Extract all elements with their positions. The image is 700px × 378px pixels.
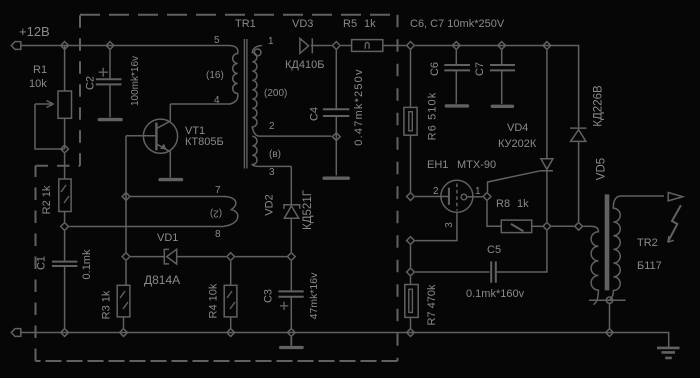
resistor R7 power mark <box>409 289 413 312</box>
svg-text:КУ202К: КУ202К <box>498 138 537 150</box>
transformer TR1 secondary winding upper <box>252 46 262 137</box>
node C3 top junction <box>287 253 295 261</box>
wire R4 node to C3 node <box>235 256 286 258</box>
wire C5 right <box>496 231 547 272</box>
diode VD3 <box>300 38 312 53</box>
chassis bar under C6 <box>446 104 467 107</box>
transformer TR1 secondary start loop <box>254 49 261 56</box>
svg-text:R1: R1 <box>33 64 47 76</box>
wire VD1 to R4 node <box>177 256 226 258</box>
resistor R6 top lead <box>410 50 412 107</box>
chassis bar under C2 <box>99 118 121 121</box>
resistor R4 <box>224 285 237 317</box>
resistor R7 bottom lead <box>410 317 412 328</box>
svg-text:VD4: VD4 <box>507 122 528 134</box>
svg-text:2: 2 <box>269 121 275 132</box>
svg-text:3: 3 <box>444 222 455 228</box>
node pin3 junction <box>407 237 415 245</box>
resistor R6 bottom lead <box>410 135 412 192</box>
capacitor C7 <box>490 65 515 70</box>
svg-text:EH1: EH1 <box>427 159 448 171</box>
svg-text:0.1mk*160v: 0.1mk*160v <box>466 288 525 300</box>
wire node to R5 <box>341 45 352 47</box>
resistor R2 lead <box>64 154 66 179</box>
transformer TR1 bottom winding <box>224 197 238 227</box>
svg-text:(200): (200) <box>264 88 287 99</box>
resistor R6 <box>404 107 417 135</box>
neon lamp EH1 starter electrode dashed <box>456 184 458 211</box>
transistor VT1 emitter arrow <box>160 144 167 150</box>
resistor R1 <box>58 91 72 118</box>
capacitor C3 top lead <box>290 261 292 291</box>
diode VD1 zener <box>164 249 176 264</box>
transistor VT1 emitter <box>158 145 171 178</box>
svg-text:КД521Г: КД521Г <box>302 189 314 230</box>
spark gap arrow <box>668 193 683 201</box>
svg-text:R6 510k: R6 510k <box>427 92 439 141</box>
resistor R2 power marks <box>61 185 69 203</box>
svg-text:(в): (в) <box>269 149 281 160</box>
resistor R3 power marks <box>120 291 128 309</box>
dashed module border notch horizontal <box>36 165 81 167</box>
transformer TR2 secondary winding <box>610 196 664 300</box>
input terminal +12V <box>11 42 20 50</box>
svg-text:3: 3 <box>269 167 275 178</box>
ground <box>657 348 680 358</box>
neon lamp EH1 <box>441 180 473 212</box>
dashed module border right <box>397 15 399 361</box>
svg-text:TR2: TR2 <box>637 237 658 249</box>
svg-text:1k: 1k <box>517 198 529 210</box>
capacitor C3 bottom lead <box>290 297 292 328</box>
spark gap lightning <box>668 205 681 242</box>
resistor R8 <box>501 220 531 233</box>
chassis bar under C4 <box>324 176 348 179</box>
wire base vertical net <box>125 136 127 252</box>
resistor R3 top lead <box>124 261 127 285</box>
svg-text:4: 4 <box>214 95 220 106</box>
capacitor C7 top lead <box>501 50 503 65</box>
node VD5 bottom junction <box>575 222 583 230</box>
svg-text:VD1: VD1 <box>157 232 178 244</box>
resistor R8 right lead <box>532 225 543 227</box>
wire TR1 pin3 to VD2 <box>259 165 291 167</box>
svg-text:R4 10k: R4 10k <box>208 283 220 318</box>
wire pin8 net <box>69 226 224 228</box>
transformer TR1 primary top winding <box>229 46 238 104</box>
svg-text:C2: C2 <box>85 76 97 90</box>
wire TR1 pin2 to C4 <box>259 135 332 137</box>
resistor R2 bottom lead <box>64 212 66 223</box>
node C7 junction <box>498 42 506 50</box>
resistor R3 <box>117 285 130 317</box>
dashed module border left lower <box>35 166 37 361</box>
svg-text:10k: 10k <box>29 78 47 90</box>
wire VD2 bottom lead <box>290 218 292 252</box>
resistor R5 power mark <box>365 43 369 49</box>
svg-text:R7 470k: R7 470k <box>426 284 438 325</box>
svg-text:C5: C5 <box>487 244 501 256</box>
node TR2 rail junction <box>606 329 614 337</box>
resistor R5 <box>352 40 383 52</box>
resistor R8 left lead <box>487 201 501 226</box>
dashed module border top <box>80 14 398 16</box>
svg-text:VD3: VD3 <box>292 18 313 30</box>
transformer TR2 bottom loop <box>606 297 612 303</box>
svg-text:Д814А: Д814А <box>144 273 180 287</box>
svg-text:2: 2 <box>433 186 439 197</box>
node R6 top junction <box>407 42 415 50</box>
svg-text:C1: C1 <box>36 256 48 270</box>
resistor R4 top lead <box>230 261 232 285</box>
chassis bar under VT1 emitter <box>160 178 181 181</box>
svg-text:1k: 1k <box>364 18 376 30</box>
resistor R7 <box>405 285 418 318</box>
capacitor C5 <box>491 261 496 282</box>
capacitor C6 bottom lead <box>455 70 457 103</box>
capacitor C1 top lead <box>64 231 66 261</box>
resistor R1 wiper arrow <box>35 101 54 108</box>
node C6 junction <box>452 42 460 50</box>
node C4 top junction <box>332 42 340 50</box>
capacitor C6 <box>444 65 470 70</box>
capacitor C6 top lead <box>455 50 457 65</box>
diode VD5 <box>570 128 586 141</box>
svg-text:+12В: +12В <box>19 24 50 39</box>
svg-text:C3: C3 <box>263 289 275 303</box>
transformer TR2 primary winding <box>589 226 598 304</box>
thyristor VD4 anode lead <box>546 50 548 159</box>
wire lamp pin3 <box>415 212 457 240</box>
resistor R2 <box>59 179 71 212</box>
svg-text:1: 1 <box>475 186 481 197</box>
svg-text:R3 1k: R3 1k <box>101 290 113 319</box>
spark gap lightning arrowhead <box>668 236 674 242</box>
dashed module border left upper <box>79 15 81 166</box>
node pin7-base junction <box>122 193 130 201</box>
wire VT1 collector to TR1 pin4 <box>170 103 231 105</box>
svg-text:C6: C6 <box>429 62 441 76</box>
svg-text:47mk*16v: 47mk*16v <box>308 272 320 319</box>
node C2 top junction <box>106 42 114 50</box>
svg-text:C6, C7 10mk*250V: C6, C7 10mk*250V <box>410 18 505 30</box>
svg-text:МТХ-90: МТХ-90 <box>457 159 496 171</box>
diode VD5 cathode-anode leads <box>578 141 580 221</box>
node R8-VD4 junction <box>543 222 551 230</box>
capacitor C1 bottom lead <box>64 266 66 328</box>
capacitor C3 plus sign <box>280 302 288 310</box>
capacitor C2 plus sign <box>99 68 108 77</box>
capacitor C2 top lead <box>109 50 111 79</box>
transformer TR1 core <box>244 39 247 169</box>
wire VD5 node to TR2 primary <box>583 225 589 227</box>
capacitor C7 bottom lead <box>501 70 503 104</box>
node R7 rail junction <box>407 329 415 337</box>
capacitor C4 top lead <box>335 50 337 108</box>
input terminal bottom <box>11 329 20 337</box>
transistor VT1 <box>143 119 177 153</box>
chassis bar under C3 node <box>281 337 303 347</box>
wire C5 row <box>415 271 489 273</box>
svg-text:TR1: TR1 <box>235 18 256 30</box>
svg-text:Б117: Б117 <box>637 260 662 272</box>
capacitor C2 <box>96 79 122 84</box>
wire R5 to R6 node <box>383 45 406 47</box>
resistor R6 power mark <box>409 112 413 131</box>
node R3 rail junction <box>120 329 128 337</box>
svg-text:R2 1k: R2 1k <box>41 185 53 214</box>
svg-text:7: 7 <box>215 185 221 196</box>
node VD4 anode junction <box>543 42 551 50</box>
capacitor C4 <box>323 109 349 116</box>
svg-text:8: 8 <box>215 229 221 240</box>
wire VD3 to node <box>311 45 332 47</box>
svg-text:(2): (2) <box>210 208 222 219</box>
svg-text:R8: R8 <box>496 198 510 210</box>
svg-text:C4: C4 <box>309 107 321 121</box>
resistor R4 bottom lead <box>230 317 232 328</box>
svg-text:КТ805Б: КТ805Б <box>185 136 224 148</box>
wire VD2 top lead <box>290 166 292 204</box>
node VD1 left junction <box>122 253 130 261</box>
node R4 top junction <box>227 253 235 261</box>
neon lamp EH1 anode hook <box>461 194 467 200</box>
svg-text:КД226В: КД226В <box>593 85 605 127</box>
transformer TR2 bottom bar <box>589 299 626 301</box>
svg-text:R5: R5 <box>343 18 357 30</box>
capacitor C4 bottom lead <box>335 116 337 175</box>
node R1 top junction <box>61 42 69 50</box>
svg-text:1: 1 <box>268 36 274 47</box>
resistor R3 bottom lead <box>123 317 125 328</box>
capacitor C3 <box>278 291 303 296</box>
svg-text:5: 5 <box>214 35 220 46</box>
transformer TR1 secondary winding lower <box>252 136 259 166</box>
dashed module border bottom <box>36 360 398 362</box>
resistor R1 top lead <box>64 46 66 92</box>
wire TR2 to rail <box>609 303 611 328</box>
wire lamp pin1 <box>467 196 483 198</box>
node R4 rail junction <box>227 329 235 337</box>
svg-text:100mk*16v: 100mk*16v <box>130 56 141 106</box>
resistor R1 bottom lead and wiper loop <box>35 104 65 149</box>
diode VD2 <box>284 205 300 219</box>
transistor VT1 collector <box>158 104 171 128</box>
wire node to VD5 node <box>552 225 575 227</box>
node gate junction <box>483 193 491 201</box>
wire C5 left <box>410 245 412 267</box>
wire lamp pin2 <box>415 196 449 198</box>
wire bottom rail <box>21 333 669 347</box>
thyristor VD4 cathode lead <box>546 171 548 222</box>
svg-text:VD5: VD5 <box>596 158 608 180</box>
resistor R8 power mark <box>511 224 524 231</box>
node C1-rail junction <box>61 329 69 337</box>
svg-text:C7: C7 <box>474 62 486 76</box>
wire VT1 base <box>126 135 155 137</box>
svg-text:КД410Б: КД410Б <box>285 59 324 71</box>
thyristor VD4 <box>541 159 553 171</box>
node R1-R2 junction <box>61 145 69 153</box>
svg-text:(16): (16) <box>206 70 224 81</box>
wire top right net <box>415 46 578 128</box>
svg-text:0.47mk*250v: 0.47mk*250v <box>353 68 365 145</box>
node C5 left junction <box>407 268 415 276</box>
node lamp pin2 junction <box>407 193 415 201</box>
neon lamp EH1 cathode electrode <box>448 188 450 205</box>
wire VD1 left <box>131 256 165 258</box>
transformer TR2 core <box>605 194 610 290</box>
capacitor C1 <box>52 262 77 266</box>
node C3 rail junction <box>287 329 295 337</box>
svg-text:0.1mk: 0.1mk <box>81 249 93 279</box>
node R2-C1 junction <box>61 223 69 231</box>
thyristor VD4 gate <box>488 171 541 192</box>
wire TR1 pin7 net <box>131 196 225 198</box>
wire top rail <box>21 45 230 47</box>
chassis bar under C7 <box>492 105 512 108</box>
resistor R7 top lead <box>410 277 412 285</box>
capacitor C2 bottom lead <box>109 84 111 117</box>
node C4-pin2 junction <box>332 133 340 141</box>
resistor R4 power marks <box>227 291 235 309</box>
transistor VT1 base bar <box>155 123 157 151</box>
svg-text:VD2: VD2 <box>264 194 276 215</box>
